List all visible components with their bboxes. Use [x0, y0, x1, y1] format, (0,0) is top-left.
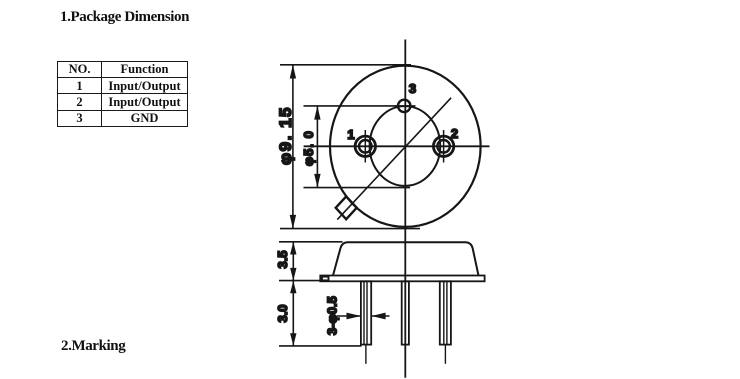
pin 1 (inner ring) [359, 140, 372, 153]
svg-text:3: 3 [409, 81, 416, 96]
arrowhead φ9.15 top [290, 65, 296, 79]
left lead inner lines [363, 281, 365, 344]
vertical centerline (whole figure) [404, 40, 406, 378]
lead diameter dimension: right arrow line [371, 315, 389, 317]
extension line: can top (3.5) [279, 241, 343, 243]
section title 2 [61, 338, 125, 355]
pin 1 vertical crosshair [364, 130, 366, 163]
pin 3 ring [398, 100, 410, 112]
arrowhead 3.5 top [290, 242, 296, 255]
extension line: top of φ5.0 [304, 105, 399, 107]
index tab (diamond) [336, 196, 357, 219]
arrowhead φ9.15 bottom [290, 215, 296, 229]
dimension line 3.0 [292, 281, 294, 346]
horizontal centerline through pins 1 and 2 [304, 145, 490, 147]
top view: pin circle φ5.0 [370, 106, 441, 186]
left lead axis [365, 345, 367, 364]
extension line: bottom of φ9.15 [280, 228, 420, 230]
side view: left lead [361, 281, 371, 344]
pin 2 (outer ring) [433, 136, 453, 156]
arrowhead 3.0 top [290, 281, 296, 294]
arrowhead φ5.0 bottom [314, 174, 320, 188]
lead diameter arrowhead right [371, 313, 385, 320]
pin function table [57, 61, 188, 127]
svg-text:3-φ0.5: 3-φ0.5 [325, 296, 340, 335]
side view: can body [333, 242, 479, 275]
side view: flange [320, 276, 484, 282]
extension line: bottom of φ5.0 [304, 187, 411, 189]
arrowhead φ5.0 top [314, 106, 320, 120]
dimension line φ9.15 [292, 65, 294, 229]
extension line: flange bottom (3.5/3.0) [279, 280, 321, 282]
section title 1 [60, 9, 189, 26]
right lead inner lines [443, 281, 445, 344]
right lead axis [444, 345, 446, 364]
pin 2 vertical crosshair [443, 130, 445, 163]
lead diameter arrowhead left [347, 313, 361, 320]
svg-text:2: 2 [451, 126, 458, 141]
svg-text:φ5. 0: φ5. 0 [301, 130, 316, 166]
pin 2 (inner ring) [437, 140, 450, 153]
extension line: lead bottom (3.0) [279, 345, 362, 347]
pin 3 horizontal crosshair [395, 105, 416, 107]
diagonal index line [337, 98, 451, 220]
side view: right lead [440, 281, 451, 344]
top view: package outline circle φ9.15 [330, 66, 481, 227]
side view: index tab on flange [322, 277, 329, 281]
svg-text:3.5: 3.5 [275, 250, 290, 268]
svg-text:φ9. 15: φ9. 15 [276, 106, 295, 165]
arrowhead 3.5 bottom [290, 268, 296, 281]
dimension line 3.5 [292, 242, 294, 281]
pin 1 (outer ring) [355, 136, 375, 156]
dimension line φ5.0 [316, 106, 318, 188]
arrowhead 3.0 bottom [290, 333, 296, 346]
svg-text:1: 1 [347, 127, 354, 142]
svg-text:3.0: 3.0 [275, 304, 290, 322]
lead diameter dimension: left arrow line [337, 315, 361, 317]
extension line: top of φ9.15 [280, 64, 411, 66]
side view: middle lead [402, 281, 409, 344]
